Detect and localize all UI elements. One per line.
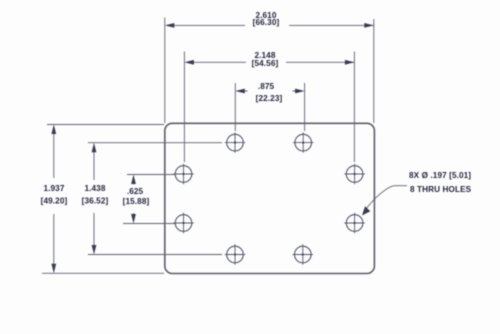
svg-text:1.438: 1.438 (85, 184, 106, 193)
hole D upper-right outer (344, 164, 364, 184)
hole A top-left inner (225, 132, 245, 152)
svg-text:[54.56]: [54.56] (252, 59, 279, 68)
hole C upper-left outer (173, 164, 193, 184)
hole F lower-right outer (344, 213, 364, 233)
dimension 1.438 inner hole row span (88, 143, 222, 255)
svg-text:[36.52]: [36.52] (82, 197, 109, 206)
svg-text:1.937: 1.937 (44, 184, 65, 193)
hole G bottom-left inner (225, 244, 245, 264)
dimension .875 inner hole span (235, 83, 304, 131)
svg-text:8 THRU HOLES: 8 THRU HOLES (410, 185, 472, 194)
svg-text:[22.23]: [22.23] (256, 94, 283, 103)
dimension 1.937 overall height (42, 125, 164, 274)
svg-text:.625: .625 (127, 187, 144, 196)
svg-text:[15.88]: [15.88] (123, 197, 150, 206)
dimension 2.148 outer hole span (184, 52, 354, 163)
svg-text:[49.20]: [49.20] (41, 197, 68, 206)
svg-text:8X Ø .197 [5.01]: 8X Ø .197 [5.01] (409, 171, 471, 180)
svg-text:.875: .875 (258, 82, 275, 91)
plate outline (165, 123, 375, 273)
svg-text:[66.30]: [66.30] (253, 18, 280, 27)
dimension .625 outer hole row span (123, 175, 176, 224)
dimension 2.610 overall width (165, 18, 374, 124)
hole H bottom-right inner (293, 244, 313, 264)
hole E lower-left outer (173, 213, 193, 233)
hole B top-right inner (293, 132, 313, 152)
leader note 8 thru holes (362, 186, 407, 216)
